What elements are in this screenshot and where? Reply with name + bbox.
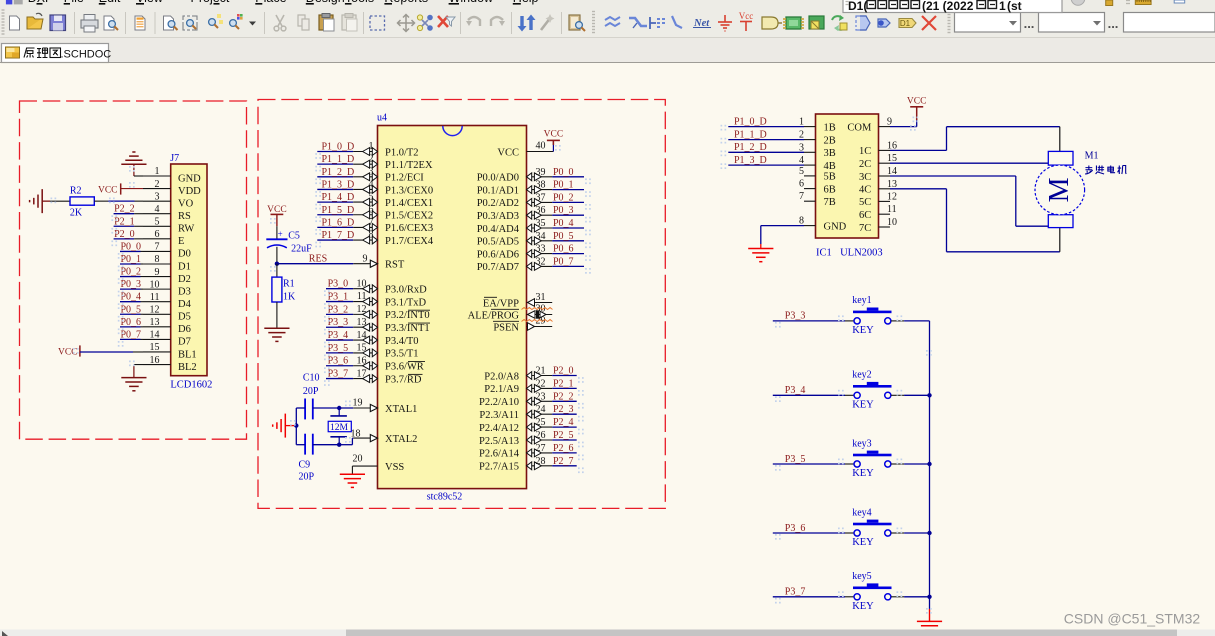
resistor R1 1K bbox=[272, 277, 296, 302]
svg-text:.SCHDOC: .SCHDOC bbox=[61, 49, 112, 61]
svg-text:6: 6 bbox=[799, 179, 804, 190]
wire 4C to motor bottom bbox=[890, 189, 1060, 252]
svg-text:12: 12 bbox=[357, 304, 367, 315]
svg-text:D5: D5 bbox=[178, 312, 191, 323]
toolbar icon: clear filter bbox=[438, 16, 455, 27]
svg-text:7: 7 bbox=[799, 191, 804, 202]
svg-text:P0_0: P0_0 bbox=[121, 241, 142, 252]
svg-text:P0_3: P0_3 bbox=[553, 205, 574, 216]
menu bar items bbox=[28, 0, 539, 5]
toolbar grip left bbox=[2, 10, 5, 34]
svg-text:20: 20 bbox=[353, 454, 363, 465]
svg-text:2: 2 bbox=[155, 179, 160, 190]
svg-text:D0: D0 bbox=[178, 249, 191, 260]
svg-text:...: ... bbox=[1024, 16, 1035, 31]
svg-text:11: 11 bbox=[357, 291, 367, 302]
wire key bus to ground bbox=[929, 597, 931, 622]
svg-text:2C: 2C bbox=[859, 159, 871, 170]
svg-text:25: 25 bbox=[536, 417, 546, 428]
toolbar icon: no ERC red cross bbox=[922, 16, 936, 30]
svg-text:15: 15 bbox=[357, 343, 367, 354]
dashed region box 1 (LCD section) bbox=[20, 101, 247, 439]
J7 pin 15 BL1 bbox=[143, 342, 197, 360]
motor M1 stepper 步进电机 bbox=[1035, 151, 1085, 227]
wire ground to R2 bbox=[42, 200, 70, 202]
u4 pin 36 P0.3/AD3 with net label P0_3 bbox=[477, 205, 584, 222]
junction dot crystal ground bbox=[294, 423, 298, 427]
svg-text:Project: Project bbox=[191, 0, 230, 5]
u4 pin 18 XTAL2 bbox=[351, 428, 418, 445]
white box icon bbox=[1174, 0, 1185, 3]
u4 pin 3 P1.2/ECI with net label P1_2_D bbox=[317, 166, 424, 183]
svg-text:7B: 7B bbox=[824, 197, 836, 208]
wire cap left vertical bbox=[295, 408, 297, 445]
u4 pin 25 P2.4/A12 with net label P2_4 bbox=[479, 417, 577, 434]
svg-text:27: 27 bbox=[536, 443, 546, 454]
svg-text:P1.5/CEX2: P1.5/CEX2 bbox=[385, 211, 433, 222]
svg-text:+: + bbox=[278, 229, 283, 239]
svg-text:GND: GND bbox=[178, 173, 201, 184]
capacitor C10 20P bbox=[303, 373, 320, 420]
horizontal scrollbar bbox=[0, 630, 1215, 636]
svg-text:RW: RW bbox=[178, 224, 194, 235]
watermark CSDN bbox=[1064, 611, 1201, 627]
svg-text:P0.5/AD5: P0.5/AD5 bbox=[477, 237, 519, 248]
svg-text:(st: (st bbox=[1007, 0, 1022, 13]
u4 pin 29 PSEN bbox=[493, 316, 553, 334]
junction dot on key bus bbox=[927, 595, 931, 599]
svg-text:21: 21 bbox=[536, 366, 546, 377]
ground (earth) at R1 bbox=[264, 328, 289, 341]
J7 pin 3 VO bbox=[143, 191, 194, 209]
ground (rotated earth) at crystal bbox=[273, 414, 297, 438]
junction dot on key bus bbox=[927, 462, 931, 466]
toolbar separator bbox=[460, 12, 462, 34]
svg-text:22: 22 bbox=[536, 378, 546, 389]
toolbar icon: print bbox=[81, 15, 98, 33]
comment ULN2003 bbox=[840, 247, 883, 258]
svg-text:P1_2_D: P1_2_D bbox=[322, 167, 355, 178]
toolbar icon: place sheet symbol bbox=[809, 16, 824, 29]
svg-text:P2.4/A12: P2.4/A12 bbox=[479, 423, 519, 434]
IC1 pin 4 4B bbox=[728, 155, 835, 172]
svg-text:COM: COM bbox=[847, 122, 872, 133]
switch key1 KEY with net label P3_3 bbox=[773, 295, 930, 336]
ground (earth) at J7 pin 16 bbox=[121, 378, 146, 391]
svg-text:4C: 4C bbox=[859, 185, 871, 196]
svg-text:38: 38 bbox=[536, 180, 546, 191]
svg-text:1: 1 bbox=[369, 141, 374, 152]
svg-text:key2: key2 bbox=[852, 370, 871, 381]
title grip bbox=[846, 2, 849, 5]
svg-text:3: 3 bbox=[369, 166, 374, 177]
J7 pin 8 D1 bbox=[143, 254, 191, 272]
toolbar ellipsis 1 bbox=[1024, 16, 1035, 31]
net label P2_1 at J7 pin 5 bbox=[114, 216, 143, 227]
svg-text:13: 13 bbox=[357, 317, 367, 328]
J7 pin 4 RS bbox=[143, 204, 191, 222]
svg-text:33: 33 bbox=[536, 244, 546, 255]
svg-text:12M: 12M bbox=[330, 423, 349, 433]
svg-text:P3_5: P3_5 bbox=[785, 454, 806, 465]
svg-text:RES: RES bbox=[309, 253, 327, 264]
net label P0_0 at J7 pin 7 bbox=[120, 241, 143, 252]
toolbar icon: place signal harness bbox=[650, 17, 665, 29]
gold pencil icon bbox=[1106, 0, 1113, 6]
IC1 pin 14 3C bbox=[859, 166, 897, 183]
svg-text:u4: u4 bbox=[377, 113, 387, 124]
u4 pin 21 P2.0/A8 with net label P2_0 bbox=[484, 366, 576, 383]
power port VCC at IC1 COM bbox=[890, 97, 926, 127]
svg-text:P0.2/AD2: P0.2/AD2 bbox=[477, 198, 519, 209]
svg-text:3: 3 bbox=[155, 191, 160, 202]
IC1 pin 12 5C bbox=[859, 191, 897, 208]
u4 pin 8 P1.7/CEX4 with net label P1_7_D bbox=[317, 230, 434, 247]
wire RES net to u4 RST with net label RES bbox=[277, 253, 353, 264]
power port VCC at J7 pin 2 bbox=[98, 183, 143, 195]
svg-text:EA/VPP: EA/VPP bbox=[483, 298, 519, 309]
svg-text:P2_4: P2_4 bbox=[553, 417, 574, 428]
svg-text:P3.6/WR: P3.6/WR bbox=[385, 362, 424, 373]
svg-text:P1_3_D: P1_3_D bbox=[322, 179, 355, 190]
switch key4 KEY with net label P3_6 bbox=[773, 507, 930, 548]
svg-text:P0_4: P0_4 bbox=[121, 292, 142, 303]
toolbar icon: place IC part green bbox=[783, 17, 804, 29]
u4 pin 4 P1.3/CEX0 with net label P1_3_D bbox=[317, 179, 433, 196]
svg-text:CSDN @C51_STM32: CSDN @C51_STM32 bbox=[1064, 611, 1201, 627]
overline marks on P3 pin names bbox=[408, 310, 430, 374]
svg-text:key3: key3 bbox=[852, 438, 871, 449]
svg-text:19: 19 bbox=[353, 398, 363, 409]
svg-text:P2_2: P2_2 bbox=[114, 204, 135, 215]
svg-text:5C: 5C bbox=[859, 197, 871, 208]
svg-text:3B: 3B bbox=[824, 148, 836, 159]
J7 pin 2 VDD bbox=[143, 179, 201, 197]
svg-text:P3_3: P3_3 bbox=[785, 311, 806, 322]
designator M1 bbox=[1085, 151, 1099, 162]
junction dot XTAL2 bbox=[337, 443, 341, 447]
svg-text:12: 12 bbox=[150, 304, 160, 315]
svg-text:P3.7/RD: P3.7/RD bbox=[385, 374, 422, 385]
svg-text:P1_1_D: P1_1_D bbox=[734, 129, 767, 140]
svg-text:17: 17 bbox=[357, 368, 367, 379]
svg-text:31: 31 bbox=[536, 292, 546, 303]
toolbar separator bbox=[125, 12, 127, 34]
IC1 pin 11 6C bbox=[859, 204, 897, 221]
svg-text:6: 6 bbox=[369, 204, 374, 215]
svg-text:D1: D1 bbox=[178, 261, 191, 272]
svg-text:16: 16 bbox=[150, 355, 160, 366]
u4 pin 32 P0.7/AD7 with net label P0_7 bbox=[477, 256, 584, 273]
svg-text:VCC: VCC bbox=[267, 205, 287, 215]
toolbar icon: place part bbox=[762, 17, 782, 29]
svg-text:1C: 1C bbox=[859, 146, 871, 157]
svg-text:P1.4/CEX1: P1.4/CEX1 bbox=[385, 198, 433, 209]
svg-text:P3_3: P3_3 bbox=[328, 317, 349, 328]
toolbar icon: wand (disabled) bbox=[541, 14, 555, 30]
svg-text:7: 7 bbox=[369, 217, 374, 228]
junction node RES bbox=[275, 262, 279, 266]
svg-text:10: 10 bbox=[150, 279, 160, 290]
svg-text:34: 34 bbox=[536, 231, 546, 242]
u4 pin 28 P2.7/A15 with net label P2_7 bbox=[479, 456, 577, 473]
u4 pin 19 XTAL1 bbox=[353, 398, 418, 415]
wire C5 to junction bbox=[276, 247, 278, 264]
IC1 pin 6 6B bbox=[799, 179, 836, 196]
toolbar icon: zoom colors bbox=[230, 14, 243, 29]
toolbar grip 2 bbox=[948, 12, 951, 33]
wire 3C to motor bbox=[890, 176, 1048, 226]
toolbar icon: redo (disabled) bbox=[491, 17, 505, 26]
svg-text:3C: 3C bbox=[859, 172, 871, 183]
svg-text:P1_0_D: P1_0_D bbox=[734, 116, 767, 127]
power port VCC above C5 bbox=[267, 205, 287, 239]
svg-text:6: 6 bbox=[155, 229, 160, 240]
svg-text:15: 15 bbox=[150, 342, 160, 353]
svg-text:P0.6/AD6: P0.6/AD6 bbox=[477, 249, 519, 260]
junction dot XTAL1 bbox=[337, 406, 341, 410]
svg-text:P3.3/INT1: P3.3/INT1 bbox=[385, 323, 430, 334]
svg-text:P2_0: P2_0 bbox=[114, 229, 135, 240]
J7 pin 7 D0 bbox=[143, 242, 191, 260]
junction dot on key bus bbox=[927, 393, 931, 397]
u4 pin 13 P3.3/INT1 with net label P3_3 bbox=[326, 317, 430, 334]
svg-text:M1: M1 bbox=[1085, 151, 1099, 162]
svg-text:1K: 1K bbox=[283, 292, 296, 303]
svg-text:P2_5: P2_5 bbox=[553, 430, 574, 441]
toolbar separator bbox=[74, 12, 76, 34]
svg-text:P1_5_D: P1_5_D bbox=[322, 205, 355, 216]
svg-text:PSEN: PSEN bbox=[493, 322, 519, 333]
toolbar icon: place port bbox=[878, 19, 890, 27]
J7 pin 11 D4 bbox=[143, 292, 192, 310]
u4 pin 33 P0.6/AD6 with net label P0_6 bbox=[477, 244, 584, 261]
toolbar icon: place VCC port bbox=[739, 11, 754, 31]
svg-text:P2_1: P2_1 bbox=[114, 216, 135, 227]
svg-text:1: 1 bbox=[155, 166, 160, 177]
svg-text:P0_6: P0_6 bbox=[121, 317, 142, 328]
svg-text:P3_5: P3_5 bbox=[328, 343, 349, 354]
svg-text:P1.3/CEX0: P1.3/CEX0 bbox=[385, 185, 433, 196]
svg-text:P0.7/AD7: P0.7/AD7 bbox=[477, 262, 519, 273]
J7 pin 6 E bbox=[143, 229, 184, 247]
svg-text:6C: 6C bbox=[859, 210, 871, 221]
u4 pin 12 P3.2/INT0 with net label P3_2 bbox=[326, 304, 430, 321]
svg-text:37: 37 bbox=[536, 192, 546, 203]
resistor R2 2K bbox=[70, 185, 94, 218]
compile marks texture bbox=[51, 117, 932, 614]
svg-text:P2_7: P2_7 bbox=[553, 456, 574, 467]
svg-text:P0_7: P0_7 bbox=[121, 329, 142, 340]
power port VCC at J7 pin 15 bbox=[58, 345, 143, 357]
svg-text:BL2: BL2 bbox=[178, 362, 197, 373]
svg-text:D1: D1 bbox=[900, 19, 911, 28]
comment 步进电机 bbox=[1085, 166, 1126, 175]
net label P0_7 at J7 pin 14 bbox=[120, 329, 143, 340]
toolbar icon: place device sheet D1 bbox=[899, 19, 916, 29]
capacitor C9 20P bbox=[299, 434, 315, 483]
svg-text:P1.0/T2: P1.0/T2 bbox=[385, 147, 419, 158]
svg-text:D3: D3 bbox=[178, 286, 191, 297]
svg-text:5B: 5B bbox=[824, 172, 836, 183]
u4 pin 16 P3.6/WR with net label P3_6 bbox=[326, 355, 424, 372]
svg-text:LCD1602: LCD1602 bbox=[170, 380, 212, 391]
svg-text:P3.0/RxD: P3.0/RxD bbox=[385, 285, 427, 296]
svg-text:P3_7: P3_7 bbox=[785, 587, 806, 598]
toolbar combobox 3 bbox=[1124, 13, 1215, 33]
svg-text:6B: 6B bbox=[824, 184, 836, 195]
designator J7 bbox=[170, 153, 179, 164]
toolbar icon: zoom document bbox=[164, 16, 178, 30]
svg-text:P3_6: P3_6 bbox=[785, 523, 806, 534]
svg-text:P1_1_D: P1_1_D bbox=[322, 154, 355, 165]
toolbar icon: place sheet entry bbox=[856, 16, 870, 30]
toolbar icon: copy (disabled) bbox=[298, 15, 309, 30]
net label P0_6 at J7 pin 13 bbox=[120, 317, 143, 328]
ground (earth) at VSS bbox=[340, 474, 365, 487]
toolbar icon: print preview bbox=[104, 16, 118, 30]
designator IC1 bbox=[816, 247, 832, 258]
u4 pin 7 P1.6/CEX3 with net label P1_6_D bbox=[317, 217, 433, 234]
toolbar icon: browse library bbox=[569, 15, 585, 31]
nav circle button bbox=[1071, 0, 1085, 5]
u4 pin 17 P3.7/RD with net label P3_7 bbox=[326, 368, 422, 385]
power port VCC at u4 pin 40 bbox=[544, 130, 564, 152]
svg-text:P3_0: P3_0 bbox=[328, 279, 349, 290]
svg-text:20P: 20P bbox=[303, 386, 319, 397]
IC1 pin 7 7B bbox=[799, 191, 836, 208]
svg-text:P1.1/T2EX: P1.1/T2EX bbox=[385, 160, 433, 171]
svg-text:P3_7: P3_7 bbox=[328, 369, 349, 380]
toolbar icon: cross probe bbox=[417, 15, 432, 31]
top grip bbox=[1126, 1, 1130, 4]
u4 pin 15 P3.5/T1 with net label P3_5 bbox=[326, 343, 419, 360]
J7 pin 14 D7 bbox=[143, 330, 191, 348]
svg-text:12: 12 bbox=[887, 191, 897, 202]
svg-text:R2: R2 bbox=[70, 185, 82, 196]
toolbar icon: move bbox=[398, 15, 415, 32]
u4 pin 1 P1.0/T2 with net label P1_0_D bbox=[317, 141, 418, 158]
svg-text:P1_3_D: P1_3_D bbox=[734, 155, 767, 166]
svg-text:J7: J7 bbox=[170, 153, 179, 164]
svg-text:ALE/PROG: ALE/PROG bbox=[468, 310, 520, 321]
tab bar divider bbox=[0, 38, 1215, 64]
svg-text:4: 4 bbox=[369, 179, 374, 190]
svg-text:P2.1/A9: P2.1/A9 bbox=[484, 384, 519, 395]
u4 pin 22 P2.1/A9 with net label P2_1 bbox=[484, 378, 576, 395]
toolbar icon: new document bbox=[10, 16, 20, 30]
svg-text:P3.1/TxD: P3.1/TxD bbox=[385, 297, 427, 308]
wire 1C to motor top bbox=[890, 127, 1060, 152]
wire XTAL1 row bbox=[296, 407, 353, 409]
toolbar icon: zoom selection bbox=[209, 14, 223, 28]
toolbar grip bbox=[592, 12, 595, 33]
svg-text:P2.5/A13: P2.5/A13 bbox=[479, 436, 519, 447]
svg-text:7: 7 bbox=[155, 242, 160, 253]
svg-text:4B: 4B bbox=[824, 161, 836, 172]
svg-text:P3.2/INT0: P3.2/INT0 bbox=[385, 310, 430, 321]
svg-text:P3_4: P3_4 bbox=[328, 330, 349, 341]
J7 pin 5 RW bbox=[143, 216, 194, 234]
toolbar combobox 1 bbox=[955, 13, 1021, 33]
svg-text:8: 8 bbox=[369, 230, 374, 241]
svg-text:VDD: VDD bbox=[178, 186, 201, 197]
toolbar icon: place ground (GND) bbox=[718, 15, 732, 31]
svg-text:KEY: KEY bbox=[852, 601, 874, 612]
svg-text:1B: 1B bbox=[824, 122, 836, 133]
net label P0_3 at J7 pin 10 bbox=[120, 279, 143, 290]
junction dot on key bus bbox=[927, 531, 931, 535]
svg-text:P0_3: P0_3 bbox=[121, 279, 142, 290]
svg-text:P0.4/AD4: P0.4/AD4 bbox=[477, 224, 520, 235]
svg-text:VCC: VCC bbox=[907, 97, 927, 107]
svg-text:P0.1/AD1: P0.1/AD1 bbox=[477, 185, 519, 196]
net label P2_2 at J7 pin 4 bbox=[114, 204, 143, 215]
svg-text:P3.5/T1: P3.5/T1 bbox=[385, 349, 419, 360]
ground (earth) at key bus bbox=[917, 621, 942, 634]
J7 pin 16 BL2 bbox=[143, 355, 197, 373]
svg-text:P3_6: P3_6 bbox=[328, 356, 349, 367]
u4 pin 34 P0.5/AD5 with net label P0_5 bbox=[477, 231, 584, 248]
comment stc89c52 bbox=[427, 492, 463, 503]
svg-text:13: 13 bbox=[150, 317, 160, 328]
svg-text:P3_2: P3_2 bbox=[328, 304, 349, 315]
u4 pin 2 P1.1/T2EX with net label P1_1_D bbox=[317, 154, 433, 171]
svg-text:P2_0: P2_0 bbox=[553, 366, 574, 377]
svg-text:P0_1: P0_1 bbox=[121, 254, 142, 265]
svg-text:P2.3/A11: P2.3/A11 bbox=[479, 410, 519, 421]
net label P0_5 at J7 pin 12 bbox=[120, 304, 143, 315]
svg-text:5: 5 bbox=[369, 192, 374, 203]
tab bar bottom border bbox=[0, 62, 1215, 64]
svg-text:R1: R1 bbox=[283, 279, 295, 290]
IC1 pin 13 4C bbox=[859, 179, 897, 196]
svg-text:VSS: VSS bbox=[385, 462, 404, 473]
svg-text:RST: RST bbox=[385, 260, 405, 271]
IC1 pin 8 GND bbox=[761, 216, 847, 249]
svg-text:5: 5 bbox=[799, 166, 804, 177]
u4 pin 35 P0.4/AD4 with net label P0_4 bbox=[477, 218, 584, 235]
ground (earth) at J7 pin 1 bbox=[121, 152, 146, 176]
toolbar icon: paste bbox=[319, 14, 334, 32]
svg-text:P0_2: P0_2 bbox=[553, 192, 574, 203]
u4 pin 10 P3.0/RxD with net label P3_0 bbox=[326, 278, 427, 295]
svg-text:XTAL2: XTAL2 bbox=[385, 434, 417, 445]
svg-text:P1_4_D: P1_4_D bbox=[322, 192, 355, 203]
svg-text:16: 16 bbox=[357, 355, 367, 366]
svg-text:key5: key5 bbox=[852, 571, 871, 582]
svg-text:P0.3/AD3: P0.3/AD3 bbox=[477, 211, 519, 222]
toolbar icon: place bus bbox=[629, 18, 647, 28]
toolbar combobox 2 bbox=[1039, 13, 1105, 33]
u4 pin 39 P0.0/AD0 with net label P0_0 bbox=[477, 167, 584, 184]
svg-text:20P: 20P bbox=[299, 472, 315, 483]
svg-text:P0_7: P0_7 bbox=[553, 256, 574, 267]
svg-text:9: 9 bbox=[155, 267, 160, 278]
svg-text:...: ... bbox=[1108, 16, 1119, 31]
ruler icon bbox=[1135, 0, 1151, 5]
svg-text:stc89c52: stc89c52 bbox=[427, 492, 463, 503]
svg-text:10: 10 bbox=[357, 278, 367, 289]
IC1 pin 9 COM bbox=[847, 117, 892, 134]
wire R1 to ground bbox=[276, 302, 278, 328]
comment LCD1602 bbox=[170, 380, 212, 391]
svg-text:11: 11 bbox=[887, 204, 897, 215]
svg-text:14: 14 bbox=[150, 330, 160, 341]
crystal Y1 12M bbox=[328, 408, 351, 445]
toolbar separator bbox=[511, 12, 513, 34]
svg-text:2B: 2B bbox=[824, 135, 836, 146]
